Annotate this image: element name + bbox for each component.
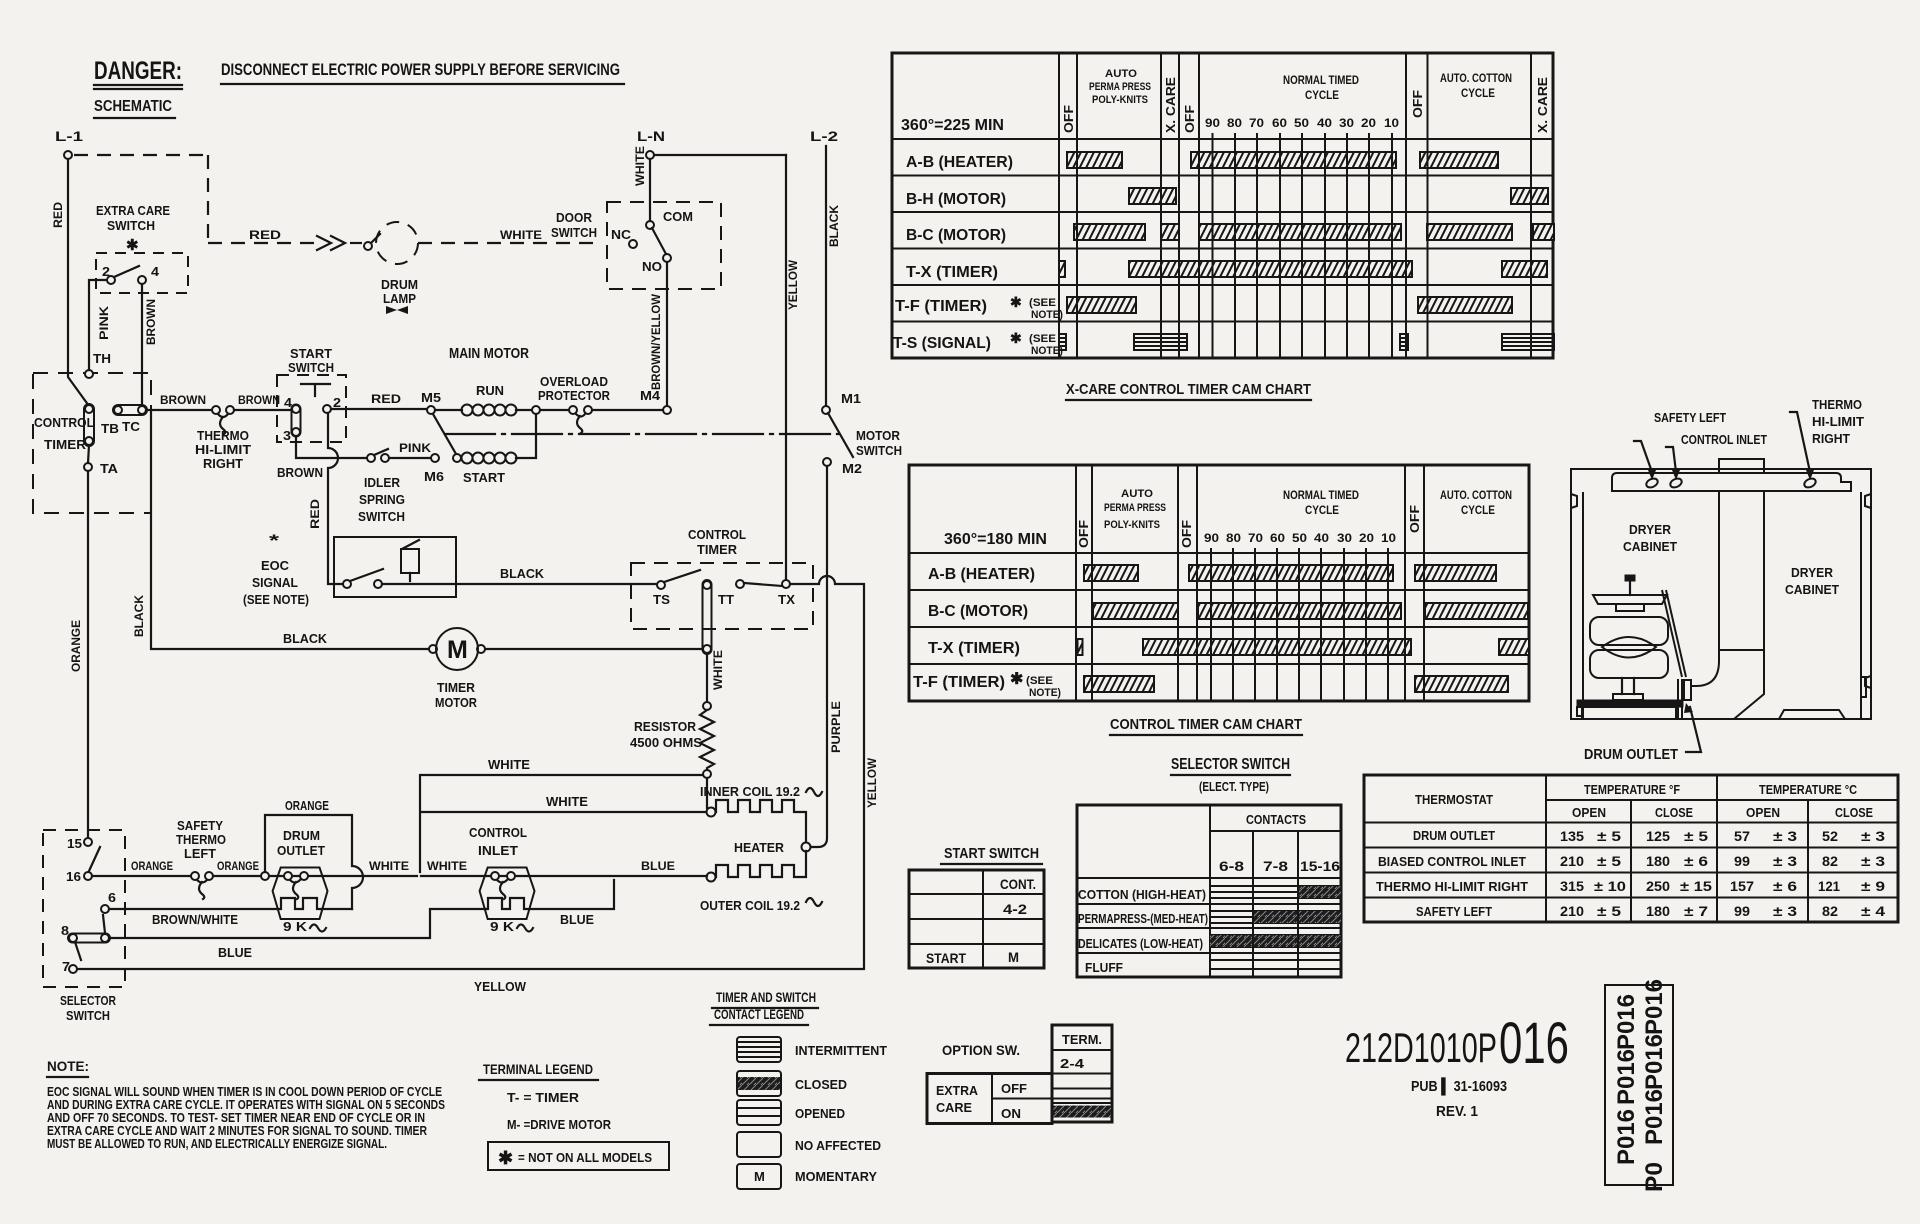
thermostat row SAFETY LEFT <box>1416 903 1885 919</box>
svg-text:B-C (MOTOR): B-C (MOTOR) <box>906 227 1006 244</box>
screw safety left <box>1634 441 1659 489</box>
svg-text:BLACK: BLACK <box>827 205 841 247</box>
svg-text:± 3: ± 3 <box>1861 828 1885 844</box>
svg-text:± 3: ± 3 <box>1773 903 1797 919</box>
svg-text:IDLER: IDLER <box>364 475 401 490</box>
svg-text:THERMOSTAT: THERMOSTAT <box>1415 792 1493 807</box>
svg-text:57: 57 <box>1734 828 1750 844</box>
svg-text:WHITE: WHITE <box>369 859 409 873</box>
svg-text:CONTACTS: CONTACTS <box>1246 812 1306 827</box>
part number 212D1010P016 <box>1345 1011 1569 1120</box>
control timer chart A-B bars <box>1084 565 1496 581</box>
svg-text:90: 90 <box>1205 116 1220 130</box>
x-care chart row labels <box>893 154 1063 357</box>
svg-text:BROWN: BROWN <box>238 393 280 407</box>
terminal TA <box>84 461 119 476</box>
svg-text:HI-LIMIT: HI-LIMIT <box>195 442 251 457</box>
svg-text:COTTON (HIGH-HEAT): COTTON (HIGH-HEAT) <box>1078 887 1206 902</box>
terminal legend entries <box>507 1090 612 1132</box>
svg-text:= NOT ON ALL MODELS: = NOT ON ALL MODELS <box>518 1150 652 1165</box>
thermostat thermo hi-limit right <box>195 406 251 471</box>
svg-text:± 4: ± 4 <box>1861 903 1885 919</box>
svg-text:± 5: ± 5 <box>1597 853 1621 869</box>
wire yellow vertical to TX <box>785 155 787 580</box>
selector switch row DELICATES <box>1078 935 1341 951</box>
svg-text:ORANGE: ORANGE <box>217 859 259 873</box>
svg-text:X. CARE: X. CARE <box>1535 77 1550 133</box>
terminal M5 <box>421 390 441 414</box>
selector switch table headers <box>1219 812 1340 874</box>
svg-text:NO AFFECTED: NO AFFECTED <box>795 1138 881 1153</box>
svg-text:YELLOW: YELLOW <box>474 979 527 994</box>
thermostat table frame <box>1364 775 1898 922</box>
svg-text:± 5: ± 5 <box>1597 828 1621 844</box>
svg-text:TB: TB <box>101 421 119 436</box>
svg-text:DRYER: DRYER <box>1629 522 1672 537</box>
wire brown/white pin6 with drum outlet bias element <box>109 898 352 909</box>
cabinet right wall notch <box>1861 677 1866 697</box>
svg-text:± 6: ± 6 <box>1684 853 1708 869</box>
svg-text:P016: P016 <box>1641 1034 1668 1090</box>
svg-text:TIMER: TIMER <box>697 542 738 557</box>
control timer box (left) <box>33 373 151 513</box>
burner diagonal panel <box>1662 590 1686 677</box>
svg-text:250: 250 <box>1646 878 1670 894</box>
svg-text:A-B (HEATER): A-B (HEATER) <box>906 154 1013 171</box>
svg-text:125: 125 <box>1646 828 1670 844</box>
svg-text:40: 40 <box>1317 116 1332 130</box>
svg-text:ORANGE: ORANGE <box>131 859 173 873</box>
burner motor assembly <box>1590 575 1668 700</box>
svg-text:CLOSE: CLOSE <box>1835 805 1873 820</box>
svg-text:360°=225 MIN: 360°=225 MIN <box>901 117 1004 134</box>
svg-text:360°=180 MIN: 360°=180 MIN <box>944 531 1047 548</box>
wire yellow TX to bottom rail (hop over purple) <box>77 576 864 969</box>
svg-text:LEFT: LEFT <box>184 846 216 861</box>
control timer chart B-C bars <box>1093 603 1528 619</box>
svg-text:OUTER COIL 19.2: OUTER COIL 19.2 <box>700 898 800 913</box>
selector pin 6 <box>101 890 116 933</box>
svg-text:PERMAPRESS-(MED-HEAT): PERMAPRESS-(MED-HEAT) <box>1078 911 1208 926</box>
svg-text:M- =DRIVE MOTOR: M- =DRIVE MOTOR <box>507 1117 612 1132</box>
wire white drum outlet to control inlet <box>421 875 707 877</box>
svg-text:FLUFF: FLUFF <box>1085 960 1123 975</box>
svg-text:30: 30 <box>1339 116 1354 130</box>
svg-text:WHITE: WHITE <box>711 650 725 690</box>
svg-text:6: 6 <box>108 890 116 905</box>
svg-text:± 5: ± 5 <box>1684 828 1708 844</box>
svg-text:B-C (MOTOR): B-C (MOTOR) <box>928 603 1028 620</box>
terminal TH <box>85 351 111 378</box>
svg-text:016: 016 <box>1499 1011 1569 1076</box>
svg-text:9 K: 9 K <box>490 919 515 934</box>
svg-text:T-S (SIGNAL): T-S (SIGNAL) <box>893 335 991 352</box>
svg-text:BLUE: BLUE <box>218 945 252 960</box>
x-care chart B-H bars <box>1129 188 1548 204</box>
svg-text:TIMER AND SWITCH: TIMER AND SWITCH <box>716 989 816 1005</box>
label EOC SIGNAL (SEE NOTE) <box>243 531 309 607</box>
terminal M6 <box>424 454 444 484</box>
svg-text:CYCLE: CYCLE <box>1461 503 1495 517</box>
wire start to run junction <box>516 414 536 458</box>
motor switch M1/M2 <box>822 391 902 476</box>
svg-text:SELECTOR SWITCH: SELECTOR SWITCH <box>1171 756 1290 773</box>
wire red L-1 vertical <box>68 159 89 406</box>
svg-text:T-X (TIMER): T-X (TIMER) <box>906 264 998 281</box>
wire brown TC to thermo hi-limit <box>146 409 212 411</box>
svg-text:315: 315 <box>1560 878 1584 894</box>
svg-text:OFF: OFF <box>1407 505 1422 533</box>
node run/start junction <box>532 406 540 414</box>
contact TT <box>703 580 783 654</box>
svg-text:BROWN: BROWN <box>160 393 206 407</box>
start winding <box>453 453 517 486</box>
svg-text:157: 157 <box>1730 878 1754 894</box>
svg-text:M6: M6 <box>424 469 444 484</box>
svg-text:EOC: EOC <box>261 558 290 573</box>
svg-text:HEATER: HEATER <box>734 840 785 855</box>
svg-text:± 9: ± 9 <box>1861 878 1885 894</box>
svg-text:MOMENTARY: MOMENTARY <box>795 1169 877 1184</box>
svg-text:CLOSED: CLOSED <box>795 1077 847 1092</box>
svg-text:POLY-KNITS: POLY-KNITS <box>1104 519 1160 531</box>
svg-text:M1: M1 <box>841 391 861 406</box>
wire red pin2 down to EOC (with hop) <box>328 413 342 584</box>
svg-text:± 3: ± 3 <box>1773 828 1797 844</box>
svg-text:WHITE: WHITE <box>546 794 588 809</box>
svg-text:BIASED CONTROL INLET: BIASED CONTROL INLET <box>1378 854 1526 869</box>
main motor switch blade M5 <box>433 414 456 454</box>
svg-text:MOTOR: MOTOR <box>435 695 478 710</box>
svg-text:WHITE: WHITE <box>427 859 467 873</box>
control timer cam chart frame <box>909 465 1529 701</box>
svg-text:PERMA PRESS: PERMA PRESS <box>1104 502 1166 514</box>
svg-text:RIGHT: RIGHT <box>1812 431 1850 446</box>
svg-text:2-4: 2-4 <box>1060 1056 1085 1071</box>
svg-text:MAIN MOTOR: MAIN MOTOR <box>449 345 529 362</box>
svg-text:SCHEMATIC: SCHEMATIC <box>94 98 172 115</box>
selector switch table title <box>1171 756 1290 794</box>
svg-text:YELLOW: YELLOW <box>786 259 800 310</box>
x-care chart B-C bars <box>1074 224 1554 240</box>
wire purple M2 to heater junction <box>812 466 827 847</box>
node L-N <box>637 128 665 159</box>
svg-text:M: M <box>1008 949 1019 965</box>
P016 stamp box <box>1605 979 1673 1192</box>
svg-text:AUTO: AUTO <box>1105 68 1137 80</box>
svg-text:MOTOR: MOTOR <box>856 428 901 443</box>
svg-text:OFF: OFF <box>1076 520 1091 548</box>
svg-text:DELICATES (LOW-HEAT): DELICATES (LOW-HEAT) <box>1078 936 1203 951</box>
wire run junction to overload <box>540 409 569 411</box>
start switch table <box>909 870 1044 968</box>
x-care chart minute ticks <box>1205 116 1399 358</box>
svg-text:20: 20 <box>1359 531 1374 545</box>
legend MOMENTARY <box>737 1164 877 1189</box>
svg-text:YELLOW: YELLOW <box>865 757 879 808</box>
label THERMO HI-LIMIT RIGHT <box>1812 397 1864 446</box>
svg-text:(SEE: (SEE <box>1029 297 1056 309</box>
svg-text:SAFETY LEFT: SAFETY LEFT <box>1654 410 1726 425</box>
wire dash into lamp <box>350 242 362 244</box>
svg-text:T-F (TIMER): T-F (TIMER) <box>895 298 987 315</box>
svg-text:9 K: 9 K <box>283 919 308 934</box>
svg-text:LAMP: LAMP <box>383 291 416 306</box>
svg-text:BLACK: BLACK <box>132 595 146 637</box>
svg-text:OFF: OFF <box>1001 1081 1027 1096</box>
overload protector <box>538 374 611 433</box>
svg-text:SWITCH: SWITCH <box>107 218 155 233</box>
svg-text:BROWN/YELLOW: BROWN/YELLOW <box>649 293 663 390</box>
wire orange TA to selector pin 15 <box>87 471 89 838</box>
svg-text:T-X (TIMER): T-X (TIMER) <box>928 640 1020 657</box>
svg-text:SWITCH: SWITCH <box>856 443 902 458</box>
svg-text:EXTRA CARE: EXTRA CARE <box>96 203 170 218</box>
svg-text:THERMO HI-LIMIT RIGHT: THERMO HI-LIMIT RIGHT <box>1376 879 1528 894</box>
thermostat safety thermo left <box>176 818 226 899</box>
svg-text:6-8: 6-8 <box>1219 858 1244 874</box>
svg-text:OPEN: OPEN <box>1572 805 1606 820</box>
svg-text:L-N: L-N <box>637 128 665 144</box>
svg-text:START: START <box>290 346 332 361</box>
svg-text:NOTE:: NOTE: <box>47 1058 89 1074</box>
svg-text:4-2: 4-2 <box>1003 901 1027 917</box>
svg-text:SWITCH: SWITCH <box>551 225 597 240</box>
svg-text:START: START <box>463 470 505 485</box>
selector pin 16 <box>66 869 92 884</box>
terminal legend asterisk box <box>488 1142 669 1170</box>
svg-text:THERMO: THERMO <box>1812 397 1862 412</box>
svg-text:CABINET: CABINET <box>1785 582 1839 597</box>
svg-text:RESISTOR: RESISTOR <box>634 719 697 734</box>
screw thermo hi-limit right <box>1790 412 1817 489</box>
wire orange safety thermo to heater line <box>213 875 417 877</box>
terminal legend title <box>479 1061 598 1080</box>
svg-text:L-1: L-1 <box>55 128 83 144</box>
svg-text:BROWN: BROWN <box>277 465 323 480</box>
svg-text:ORANGE: ORANGE <box>285 798 329 813</box>
legend INTERMITTENT <box>737 1037 887 1062</box>
svg-text:TH: TH <box>93 351 111 366</box>
svg-text:2: 2 <box>333 395 341 410</box>
run winding <box>435 383 532 416</box>
svg-text:WHITE: WHITE <box>633 146 647 186</box>
svg-text:COM: COM <box>663 209 693 224</box>
wire dashed white lamp to door switch <box>418 242 597 244</box>
wire black vertical to timer motor row <box>151 412 429 649</box>
svg-text:180: 180 <box>1646 903 1670 919</box>
control timer chart row labels <box>913 566 1061 699</box>
svg-text:P016: P016 <box>1641 979 1668 1035</box>
label DRUM OUTLET with leader <box>1584 703 1701 763</box>
svg-text:RED: RED <box>371 392 401 406</box>
svg-text:CONTROL: CONTROL <box>688 527 746 542</box>
svg-text:BLACK: BLACK <box>500 566 545 581</box>
cabinet air duct <box>1691 491 1764 719</box>
svg-text:M: M <box>447 636 468 664</box>
control timer chart title <box>1110 716 1302 735</box>
legend title <box>710 989 818 1025</box>
svg-text:82: 82 <box>1822 903 1838 919</box>
svg-text:SPRING: SPRING <box>359 492 405 507</box>
wire black L-2 to M1 <box>825 146 827 406</box>
svg-text:(ELECT. TYPE): (ELECT. TYPE) <box>1199 779 1269 794</box>
option sw EXTRA CARE rows <box>927 1074 1052 1124</box>
control timer chart T-F bars <box>1084 676 1508 692</box>
svg-text:± 10: ± 10 <box>1594 878 1626 894</box>
svg-text:X-CARE CONTROL TIMER CAM CHART: X-CARE CONTROL TIMER CAM CHART <box>1066 381 1311 398</box>
svg-text:SWITCH: SWITCH <box>358 509 405 524</box>
svg-text:P016: P016 <box>1613 1049 1640 1105</box>
x-care chart grid overlay <box>1059 53 1531 358</box>
svg-text:P016: P016 <box>1641 1089 1668 1145</box>
node heater mid junction <box>802 843 811 852</box>
selector switch grid overlay <box>1253 831 1298 977</box>
svg-text:70: 70 <box>1248 531 1263 545</box>
svg-text:START: START <box>926 950 966 966</box>
svg-text:OUTLET: OUTLET <box>277 843 325 858</box>
svg-text:TIMER: TIMER <box>44 437 87 452</box>
x-care chart header labels <box>901 68 1550 134</box>
svg-text:CONTROL TIMER CAM CHART: CONTROL TIMER CAM CHART <box>1110 716 1302 733</box>
svg-text:± 5: ± 5 <box>1597 903 1621 919</box>
node M4 <box>663 406 671 414</box>
svg-text:TT: TT <box>718 592 734 607</box>
svg-text:80: 80 <box>1227 116 1242 130</box>
svg-text:INLET: INLET <box>478 843 518 858</box>
svg-text:121: 121 <box>1818 878 1840 894</box>
x-care chart T-S intermittent bars <box>1059 334 1554 350</box>
idler spring switch <box>358 449 405 524</box>
selector switch row FLUFF <box>1085 960 1341 975</box>
selector switch box <box>43 830 125 1023</box>
svg-text:M: M <box>754 1169 765 1184</box>
svg-text:50: 50 <box>1294 116 1309 130</box>
wire brown thermo to start switch pin4 <box>234 409 292 411</box>
svg-text:CLOSE: CLOSE <box>1655 805 1693 820</box>
selector pin 15 <box>67 836 100 871</box>
svg-text:PROTECTOR: PROTECTOR <box>538 388 611 403</box>
svg-text:SAFETY: SAFETY <box>177 818 223 833</box>
svg-text:CABINET: CABINET <box>1623 539 1677 554</box>
svg-text:82: 82 <box>1822 853 1838 869</box>
svg-text:10: 10 <box>1381 531 1396 545</box>
svg-text:OFF: OFF <box>1179 520 1194 548</box>
svg-text:180: 180 <box>1646 853 1670 869</box>
svg-text:✱: ✱ <box>1010 671 1023 688</box>
svg-text:CYCLE: CYCLE <box>1305 503 1339 517</box>
svg-text:TX: TX <box>778 592 795 607</box>
wire red pin2 to M5 <box>331 408 427 410</box>
svg-text:TERMINAL LEGEND: TERMINAL LEGEND <box>483 1061 593 1077</box>
svg-text:TIMER: TIMER <box>437 680 476 695</box>
svg-text:BROWN: BROWN <box>144 299 158 345</box>
svg-text:T-F (TIMER): T-F (TIMER) <box>913 674 1005 691</box>
svg-text:RED: RED <box>51 202 65 228</box>
svg-text:L-2: L-2 <box>810 128 838 144</box>
svg-text:THERMO: THERMO <box>197 428 249 443</box>
svg-text:CARE: CARE <box>936 1100 972 1115</box>
svg-text:CONTROL: CONTROL <box>34 415 94 430</box>
svg-text:OVERLOAD: OVERLOAD <box>540 374 608 389</box>
svg-text:7-8: 7-8 <box>1263 858 1288 874</box>
svg-text:NC: NC <box>611 227 632 242</box>
burner base plate <box>1577 679 1683 719</box>
heater outer coil 19.2 ohm <box>700 851 822 913</box>
svg-text:PINK: PINK <box>399 441 431 455</box>
svg-text:SWITCH: SWITCH <box>288 360 334 375</box>
svg-text:TEMPERATURE °C: TEMPERATURE °C <box>1759 782 1858 797</box>
wire brown pin3 to idler switch <box>296 436 367 458</box>
svg-text:90: 90 <box>1204 531 1219 545</box>
svg-text:PUB ▌ 31-16093: PUB ▌ 31-16093 <box>1411 1077 1507 1096</box>
wire white L-N to COM <box>649 159 651 221</box>
contact TC <box>113 405 147 434</box>
legend CLOSED <box>737 1071 847 1096</box>
thermostat table headers <box>1415 782 1873 820</box>
wire orange pin16 to safety thermo <box>92 875 191 877</box>
svg-text:± 3: ± 3 <box>1773 853 1797 869</box>
svg-text:WHITE: WHITE <box>500 228 542 242</box>
svg-text:30: 30 <box>1337 531 1352 545</box>
option sw TERM column <box>1052 1025 1112 1122</box>
svg-text:MUST BE ALLOWED TO RUN, AND EL: MUST BE ALLOWED TO RUN, AND ELECTRICALLY… <box>47 1136 387 1151</box>
thermostat control inlet (biased) <box>469 825 535 934</box>
svg-text:M5: M5 <box>421 390 441 405</box>
selector switch row PERMAPRESS <box>1078 911 1341 926</box>
svg-text:P0: P0 <box>1641 1162 1668 1192</box>
svg-text:WHITE: WHITE <box>488 757 530 772</box>
drum outlet thermostat (pictorial) <box>1684 680 1691 700</box>
svg-text:SAFETY LEFT: SAFETY LEFT <box>1416 904 1492 919</box>
legend NO AFFECTED <box>737 1132 881 1157</box>
svg-text:DOOR: DOOR <box>556 210 593 225</box>
thermostat row BIASED CONTROL INLET <box>1378 853 1885 869</box>
wire overload to M4 <box>592 409 663 411</box>
svg-text:ON: ON <box>1001 1106 1021 1121</box>
title DANGER: <box>94 57 182 89</box>
svg-text:INTERMITTENT: INTERMITTENT <box>795 1043 887 1058</box>
svg-text:OPEN: OPEN <box>1746 805 1780 820</box>
drum lamp DS1 <box>364 222 418 314</box>
wire white net resistor/coil/outlet <box>420 775 707 872</box>
svg-text:ORANGE: ORANGE <box>69 620 83 672</box>
x-care chart A-B bars <box>1067 152 1498 168</box>
svg-text:DANGER:: DANGER: <box>94 57 182 85</box>
control timer chart minute ticks <box>1204 531 1396 701</box>
svg-text:✱: ✱ <box>1010 330 1022 346</box>
wire orange bypass loop over drum outlet <box>265 815 363 909</box>
svg-text:T- = TIMER: T- = TIMER <box>507 1090 580 1105</box>
resistor R1 4500 ohms <box>630 702 714 778</box>
svg-text:± 3: ± 3 <box>1861 853 1885 869</box>
svg-text:SIGNAL: SIGNAL <box>252 575 298 590</box>
screw control inlet <box>1666 447 1683 489</box>
svg-text:60: 60 <box>1270 531 1285 545</box>
svg-text:P016: P016 <box>1613 1109 1640 1165</box>
svg-text:PURPLE: PURPLE <box>829 701 843 753</box>
svg-text:210: 210 <box>1560 903 1584 919</box>
note title <box>47 1058 89 1077</box>
thermostat row DRUM OUTLET <box>1413 828 1885 844</box>
svg-text:TS: TS <box>653 592 670 607</box>
svg-text:20: 20 <box>1361 116 1376 130</box>
svg-text:SWITCH: SWITCH <box>66 1008 110 1023</box>
selector pin 8 contact <box>61 923 110 960</box>
svg-text:CONT.: CONT. <box>1000 876 1036 892</box>
svg-text:NOTE): NOTE) <box>1029 687 1061 699</box>
svg-text:REV. 1: REV. 1 <box>1436 1103 1478 1120</box>
